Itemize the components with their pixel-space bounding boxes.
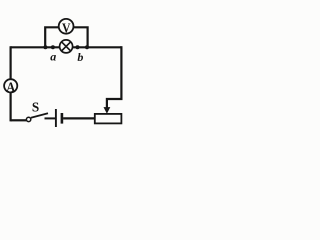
svg-text:S: S	[32, 100, 39, 115]
wire left vertical	[10, 46, 12, 121]
wire bottom left to switch	[11, 119, 27, 121]
battery cell long plate	[55, 109, 57, 127]
wire right vertical	[120, 46, 122, 99]
wire battery to rheostat	[63, 117, 95, 119]
wire switch to battery	[45, 117, 56, 119]
junction dot right (voltmeter tap)	[85, 45, 89, 49]
rheostat R1 body	[95, 114, 122, 124]
svg-text:A: A	[6, 79, 15, 94]
node b dot	[76, 45, 80, 49]
junction dot left (voltmeter tap)	[43, 45, 47, 49]
switch S lever	[31, 113, 48, 118]
rheostat slider arrow	[104, 107, 111, 114]
battery cell short plate	[61, 113, 64, 124]
wire step to slider	[107, 99, 123, 108]
lamp L1	[60, 40, 73, 53]
voltmeter U1	[59, 19, 74, 37]
node a dot	[51, 45, 55, 49]
wire voltmeter branch	[45, 27, 87, 47]
svg-text:a: a	[50, 50, 56, 64]
wire top rail a-b	[11, 46, 122, 48]
switch S pivot	[26, 117, 30, 121]
svg-text:V: V	[62, 21, 71, 36]
ammeter A1	[4, 79, 17, 94]
svg-text:b: b	[77, 50, 83, 64]
